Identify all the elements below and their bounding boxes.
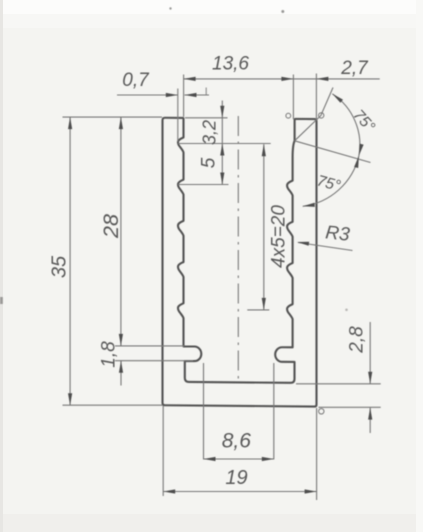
angle arc 75 deg lower: [303, 156, 359, 207]
arrowhead arc 75 upper start: [332, 94, 343, 103]
dust speck right middle: [345, 309, 348, 312]
dimension line 28: [120, 117, 122, 346]
arrowhead 2,7 right: [316, 77, 328, 81]
dimension line 35: [69, 117, 71, 405]
dimension line 3,2 / 5: [221, 101, 223, 185]
svg-text:13,6: 13,6: [212, 54, 249, 75]
dimension line 8,6: [204, 458, 274, 460]
angle leg 75 deg lower: [295, 141, 371, 163]
arrowhead arc 75 lower start: [354, 156, 359, 168]
svg-text:3,2: 3,2: [200, 120, 220, 145]
extension line top edge right of lip: [185, 117, 228, 119]
arrowhead 8,6 left: [204, 457, 216, 461]
extension line at left lip face x=183.6: [183, 75, 185, 117]
extension line left foot cap x=203.5: [203, 363, 205, 460]
svg-text:8,6: 8,6: [222, 430, 252, 453]
arrowhead 35 top: [68, 117, 72, 129]
svg-text:2,8: 2,8: [347, 326, 368, 354]
arrowhead 35 bottom: [68, 393, 72, 405]
svg-text:2,7: 2,7: [340, 58, 369, 79]
svg-text:35: 35: [49, 255, 71, 278]
extension line right foot cap x=273.8: [273, 363, 275, 460]
svg-text:1,8: 1,8: [99, 341, 120, 368]
arrowhead 19 left: [163, 489, 175, 493]
corner mark o at bottom right corner: [319, 409, 324, 414]
svg-text:R3: R3: [324, 222, 351, 245]
arrowhead 28 top: [119, 117, 123, 129]
corner mark o at top right corner: [319, 113, 324, 118]
arrowhead 1,8 bottom: [119, 361, 123, 373]
extension line left outer face down x=163.2: [162, 406, 164, 496]
arrowhead 2,8 top: [368, 372, 372, 384]
svg-text:28: 28: [99, 214, 123, 239]
svg-text:19: 19: [225, 467, 247, 489]
extension line top edge left: [63, 116, 163, 118]
extension line second serration y=184.5: [178, 184, 229, 186]
arrowhead 28 bottom / 1,8 top: [119, 334, 123, 346]
extension line at right lip face x=293.4: [292, 75, 294, 120]
arrowhead 13,6 left: [184, 77, 196, 81]
dimension line 13,6 / 2,7 chain: [184, 78, 380, 80]
dimension line 2,8 lower shaft: [369, 408, 371, 433]
corner mark o at right lip: [286, 113, 291, 118]
centre line (dash-dot axis of channel cavity): [237, 116, 239, 382]
arrowhead 8,6 right: [262, 457, 274, 461]
extension line cavity floor y=383.8: [296, 383, 381, 385]
dimension line 0,7 left shaft: [117, 94, 178, 96]
extension line bottom edge left: [63, 404, 163, 406]
arrowhead 0,7 left: [166, 93, 178, 97]
extension line at serration tip plane x=177.8: [177, 89, 179, 142]
arrowhead 4x5=20 top: [262, 144, 266, 156]
dust speck top left: [169, 7, 171, 9]
dimension line 1,8 lower shaft: [120, 361, 122, 386]
svg-text:0,7: 0,7: [122, 70, 150, 91]
svg-text:4x5=20: 4x5=20: [269, 205, 290, 268]
angle leg 75 deg upper (chamfer construction line): [295, 88, 333, 141]
arrowhead 2,8 bottom: [368, 408, 372, 420]
extension line first serration y=143.5: [178, 143, 271, 145]
scan smudge left edge: [0, 297, 3, 304]
extension line right outer face down x=316.6: [316, 408, 318, 500]
dimension line 19: [163, 491, 316, 493]
arrowhead 0,7 right: [185, 93, 197, 97]
arrowhead 3,2 / 5 shared: [220, 144, 224, 156]
arrowhead R3 leader: [297, 242, 309, 246]
dimension line 2,8 upper shaft: [369, 322, 371, 384]
dust speck top right: [281, 10, 284, 13]
stray tick at 0,7 shaft end: [205, 88, 207, 95]
extension line foot bottom y=360.7: [115, 360, 193, 362]
profile cross-section outline (U-channel body with serrated inner walls, lips, feet and floor): [163, 118, 317, 407]
arrowhead 3,2 top: [220, 106, 224, 118]
dimension line 4x5=20: [263, 144, 265, 310]
arrowhead 5 bottom: [220, 173, 224, 185]
arrowhead 4x5=20 bottom: [262, 298, 266, 310]
extension line at right outer face top x=316.4: [315, 74, 317, 120]
arrowhead arc 75 lower end: [303, 203, 315, 207]
arrowhead 13,6 right: [281, 77, 293, 81]
extension line bottom edge right y=407.3: [319, 406, 381, 408]
leader line R3: [298, 243, 353, 251]
angle arc 75 deg upper: [332, 94, 360, 156]
svg-text:5: 5: [199, 157, 220, 168]
arrowhead arc 75 upper end: [359, 144, 364, 156]
extension line foot top y=345.9: [115, 345, 184, 347]
extension line last serration y=309.9: [247, 309, 269, 311]
arrowhead 19 right: [305, 489, 317, 493]
dimension line 0,7 right shaft: [185, 94, 210, 96]
